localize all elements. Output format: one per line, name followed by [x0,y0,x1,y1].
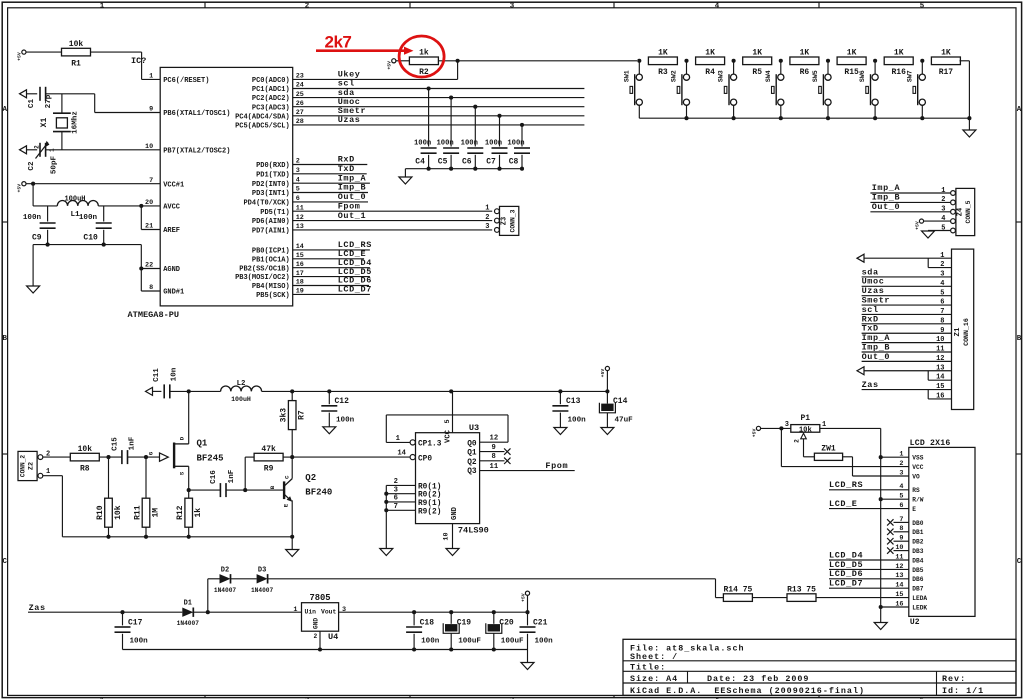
Z1 net label scl [862,305,879,315]
svg-text:3: 3 [510,3,515,11]
label IC? [131,56,146,66]
svg-text:1: 1 [100,3,105,11]
svg-text:SW2: SW2 [671,70,678,82]
capacitor C16 1nF [220,483,226,497]
svg-text:PC1(ADC1): PC1(ADC1) [252,86,290,94]
svg-text:3: 3 [394,486,398,494]
capacitor C10 100n [96,223,112,228]
svg-text:R7: R7 [298,410,307,420]
label C15 [112,437,120,451]
svg-text:100uH: 100uH [231,396,251,403]
Z1 net label sda [862,267,879,277]
net label LCD_E [338,249,367,259]
svg-text:10n: 10n [171,367,179,381]
svg-text:2: 2 [794,439,801,443]
net label Imp_A Z4 [872,183,901,193]
C18 stem [413,612,415,625]
Z1 net label Imp_A [862,333,891,343]
svg-text:3: 3 [785,421,789,429]
net label LCD_D5 at LCD [829,560,863,570]
svg-text:Zas: Zas [29,603,46,613]
U3 pin12 number [490,435,499,443]
wire R2 down to Ukey [457,61,459,80]
junction C8 rail [520,167,524,171]
net label Zas [29,603,46,613]
net label LCD_RS at LCD [829,480,863,490]
svg-text:+5V: +5V [600,369,606,378]
wire L1 to pin20 AVCC [98,205,160,207]
label C9 [32,234,42,243]
label C21 [533,619,548,628]
capacitor C11 10n [164,384,170,398]
net wire LCD_D7 at LCD [829,587,909,589]
capacitor C4 100n [421,148,437,153]
svg-text:C8: C8 [509,158,519,167]
switch SW7 [906,61,925,118]
svg-text:CP0: CP0 [418,455,432,463]
LCD wire pin1 [881,456,909,458]
junction R8-R10 [106,455,110,459]
junction C18 top [412,610,416,614]
U3 reset pin 2 wire [386,484,415,486]
svg-text:C10: C10 [83,234,98,243]
svg-text:SW1: SW1 [623,70,630,82]
R12 lower stem [188,527,190,537]
resistor R15 1K [837,49,866,77]
connector Z1 CONN_16 body [952,249,974,409]
net label LCD_D7 [338,285,372,295]
capacitor C9 100n [40,223,56,228]
svg-text:PC4(ADC4/SDA): PC4(ADC4/SDA) [235,113,290,121]
net wire LCD_RS [293,249,370,251]
label 100uH L2 [231,396,251,403]
junction rail x329 [327,389,331,393]
Z1 pin2 tie [928,258,951,267]
label 100n at C10 [79,214,98,222]
U4 output wire [339,611,528,613]
svg-text:+5V: +5V [520,593,526,602]
junction rail at +5V stem [605,389,609,393]
ground symbol analog [27,286,40,293]
C20 stem [493,612,495,624]
wire C16 to Q2 base [226,489,283,491]
svg-text:3: 3 [941,206,945,214]
resistor R17 1K [931,49,960,77]
potentiometer P1 10k [791,414,820,443]
net label Out_1 [338,211,367,221]
connector Z2 CONN_2 [18,450,50,480]
svg-text:R8: R8 [80,464,90,473]
junction C6 rail [473,167,477,171]
label C12 [335,397,350,406]
display U2 LCD 2X16 body [895,439,975,627]
svg-text:D2: D2 [221,566,229,574]
C6 stem lower [474,155,476,169]
svg-text:1N4007: 1N4007 [251,587,274,594]
svg-text:C16: C16 [210,470,218,484]
junction C6 tap [473,105,477,109]
capacitor C12 100n [321,406,337,411]
U3 pin5 number [444,419,452,423]
U3 reset pin 3 wire [386,493,415,495]
svg-text:S: S [179,471,186,475]
diode D3 1N4007 [251,566,274,594]
svg-text:CONN_3: CONN_3 [510,209,517,232]
wire +5V to Z4 pin4 [924,220,951,222]
svg-text:100n: 100n [485,139,502,147]
junction amp rail x188 [187,535,191,539]
net label LCD_D4 at LCD [829,550,863,560]
transistor Q1 BF245 JFET [148,436,224,475]
label 100n at C5 [436,139,453,147]
Z1 pin number 2 [940,261,944,269]
net label LCD_D7 at LCD [829,579,863,589]
junction C9 rail [46,243,50,247]
Z1 pin number 8 [940,317,944,325]
net wire LCD_D4 [293,267,370,269]
U3 pin8 number [492,453,496,461]
label 100n at C9 [23,214,42,222]
R10 lower stem [108,527,110,537]
svg-text:KiCad E.D.A. EESchema (200902: KiCad E.D.A. EESchema (20090216-final) [630,686,865,696]
svg-text:1K: 1K [752,49,762,58]
net wire LCD_RS at LCD [829,489,909,491]
svg-text:PC0(ADC0): PC0(ADC0) [252,77,290,85]
svg-text:Q2: Q2 [467,459,477,467]
switch SW5 [812,61,831,118]
svg-text:100n: 100n [507,139,524,147]
label C20 [499,619,514,628]
label C4 [415,158,425,167]
ground symbol U3 [446,549,459,556]
svg-text:D1: D1 [184,600,192,608]
resistor R8 10k [70,445,99,473]
rail to ground [32,245,34,286]
Z1 pin number 1 [940,252,944,260]
label C5 [438,158,448,167]
junction rail R17 drop [967,116,971,120]
svg-text:7805: 7805 [309,593,330,603]
svg-text:CONN_5: CONN_5 [965,200,972,223]
C13 lower stem [559,413,561,428]
input arrow C11 [146,387,153,395]
svg-text:Zas: Zas [862,380,879,390]
svg-text:C19: C19 [457,619,472,628]
Z1 net label Uzas [862,286,885,296]
svg-text:GND#1: GND#1 [163,289,184,297]
counter U3 74LS90 body [410,423,489,536]
svg-text:C17: C17 [128,619,143,628]
ground symbol cap bank [399,177,412,184]
net wire LCD_D5 at LCD [829,568,909,570]
svg-text:2: 2 [485,214,489,222]
label R14 75 [723,585,752,594]
svg-text:PD6(AIN0): PD6(AIN0) [252,218,290,226]
svg-text:Q0: Q0 [467,440,477,448]
svg-text:E: E [283,503,290,507]
U3 VCC stub [452,391,454,432]
net wire TxD [293,173,367,175]
svg-text:Z1: Z1 [954,327,962,336]
svg-text:ZW1: ZW1 [821,444,836,453]
svg-text:+5V: +5V [914,221,920,230]
svg-text:DB2: DB2 [912,539,923,546]
C21 stem [527,612,529,625]
capacitor C7 100n [492,148,508,153]
pin digit 2 at C2 [34,145,41,149]
svg-text:3: 3 [899,469,903,477]
svg-text:R0(1): R0(1) [418,483,441,491]
red annotation circle [399,36,444,77]
+5V stem [606,371,608,392]
C10 lower stem [103,230,105,245]
wire C1 to bend [46,93,95,95]
R9 riser [245,457,254,490]
resistor ZW1 [814,453,842,460]
+5V symbol at U4 output [520,591,529,602]
label 1nF at C16 [228,469,236,483]
svg-text:100n: 100n [436,139,453,147]
junction emitter rail [290,535,294,539]
junction keypad node x733 [732,59,736,63]
svg-text:100n: 100n [336,417,355,425]
svg-text:12: 12 [490,435,499,443]
svg-text:C5: C5 [438,158,448,167]
svg-text:VCC: VCC [912,464,923,471]
svg-text:U3: U3 [469,423,479,433]
svg-text:Id: 1/1: Id: 1/1 [942,686,984,696]
svg-text:3: 3 [485,223,489,231]
R7 upper stem [291,391,293,400]
+5V symbol at R1 [17,50,26,61]
label ZW1 [821,444,836,453]
svg-text:PD2(INT0): PD2(INT0) [252,181,290,189]
junction Q1 drain rail [187,389,191,393]
switch SW3 [718,61,737,118]
label 100n at C21 [535,638,554,646]
label 100n at C13 [568,417,587,425]
svg-text:R/W: R/W [912,497,923,504]
label C6 [462,158,472,167]
Z1 pin number 10 [936,336,944,344]
Z1 net wire Imp_A [862,342,952,344]
svg-text:R17: R17 [939,68,954,77]
svg-text:Date: 23 feb 2009: Date: 23 feb 2009 [707,674,809,684]
svg-text:Uzas: Uzas [338,115,361,125]
label C10 [83,234,98,243]
net label scl [338,79,355,89]
crystal X1 16MHz [40,111,80,134]
wire AGND pin22 [141,268,160,270]
diode D1 1N4007 [177,600,200,628]
ground symbol amp [286,550,299,557]
svg-text:PD4(T0/XCK): PD4(T0/XCK) [243,200,289,208]
label R13 75 [787,585,816,594]
svg-text:AREF: AREF [163,227,180,235]
svg-text:R9(1): R9(1) [418,500,441,508]
C6 stem upper [474,107,476,147]
svg-text:Title:: Title: [630,663,666,673]
svg-text:X1: X1 [40,118,49,128]
junction R2-Ukey [456,59,460,63]
input arrow C2 left [20,146,27,154]
C9 lower stem [47,230,49,245]
junction rail x560 [558,389,562,393]
no-connect x LCD pin9 [887,538,893,544]
Z1 pin1 wire [864,257,952,259]
P1 pin3 branch to VCC line [781,428,908,466]
net label LCD_RS [338,240,372,250]
svg-text:R6: R6 [800,68,810,77]
svg-text:2: 2 [394,478,398,486]
title block [623,639,1016,696]
label C1 [28,99,36,109]
svg-text:U2: U2 [910,618,920,627]
C19 stem [450,612,452,624]
U3 CP1 wire [386,441,410,443]
svg-text:DB6: DB6 [912,576,923,583]
svg-text:BF240: BF240 [305,488,332,498]
svg-text:PB6(XTAL1/TOSC1): PB6(XTAL1/TOSC1) [163,110,230,118]
label L2 [237,380,246,388]
svg-text:3k3: 3k3 [280,408,289,423]
amp rail ground stub [291,537,293,550]
wire gnd to Z4 pin5 [928,230,950,232]
regulator U4 7805 [293,593,346,642]
net label TxD [338,164,355,174]
U3 pin3 number [394,486,398,494]
junction gate-R11 [144,455,148,459]
inductor L2 100uH [221,386,262,391]
svg-text:PB0(ICP1): PB0(ICP1) [252,248,290,256]
label 100n at C18 [421,638,440,646]
svg-text:1M: 1M [152,508,161,518]
Z1 pin16 tie [928,390,951,399]
svg-text:1K: 1K [705,49,715,58]
wire Z2 pin2 to R8 [43,456,71,458]
junction C18 bottom [412,647,416,651]
Q2 collector wire [291,457,293,479]
svg-text:2: 2 [34,145,41,149]
svg-text:Out_1: Out_1 [338,211,367,221]
svg-text:+5V: +5V [751,428,757,437]
capacitor C5 100n [443,148,459,153]
C19 lower stem [450,634,452,650]
svg-text:C2: C2 [28,161,36,171]
no-connect x LCD pin7 [887,519,893,525]
supply ground rail [123,649,528,651]
svg-text:1nF: 1nF [129,436,137,450]
junction source-R12-C16 [187,488,191,492]
svg-text:D3: D3 [258,566,266,574]
svg-text:1nF: 1nF [228,469,236,483]
svg-text:1K: 1K [800,49,810,58]
svg-text:Fpom: Fpom [545,461,568,471]
connector Z3 CONN_3 [485,204,519,235]
Z1 pin number 9 [940,327,944,335]
Z1 pin13 arrow [857,367,864,375]
svg-text:L2: L2 [237,380,246,388]
svg-text:P1: P1 [800,414,810,423]
svg-text:Rev:: Rev: [942,674,966,684]
net label Ukey [338,70,361,80]
LCD NC stub pin8 [894,531,909,533]
U3 reset pin 6 wire [386,501,415,503]
wire R13 to LEDA [816,597,909,599]
red annotation arrow line [316,47,414,55]
Z1 net wire Umoc [862,285,952,287]
junction rail x875 [873,116,877,120]
U3 Q1 stub [480,451,505,453]
svg-text:1N4007: 1N4007 [177,620,200,627]
label 50pF [51,155,59,174]
net label Imp_B [338,183,367,193]
svg-text:Z4: Z4 [957,208,965,216]
capacitor C2 50pF variable [40,143,46,157]
svg-text:1: 1 [941,187,945,195]
cap bank ground rail [405,168,522,170]
backlight feed wire [268,579,724,598]
resistor R16 1K [884,49,913,77]
svg-text:Sheet: /: Sheet: / [630,652,678,662]
P1 wiper to ZW1 [804,439,815,457]
switch SW4 [765,61,784,118]
U3 pin9 number [492,444,496,452]
junction trunk VSS [879,455,883,459]
U3 pin14 number [397,450,406,458]
resistor R11 1M [134,498,161,527]
svg-text:1: 1 [396,435,401,443]
svg-text:SW7: SW7 [906,70,913,82]
junction AVCC-AREF [139,204,143,208]
svg-text:10: 10 [443,532,451,540]
ground symbol C12 [323,427,336,434]
junction reset bus y501 [384,500,388,504]
svg-text:16Mhz: 16Mhz [72,111,80,134]
label C16 [210,470,218,484]
R11 lower stem [145,527,147,537]
svg-text:10k: 10k [69,40,84,49]
net wire LCD_D5 [293,276,370,278]
svg-text:1k: 1k [194,508,203,518]
R11 upper stem [145,457,147,498]
wire crystal stem bottom [61,132,63,150]
red annotation 2k7 text [325,33,352,52]
Z1 pin number 11 [936,346,944,354]
label C8 [509,158,519,167]
junction rail x828 [826,116,830,120]
switch SW6 [859,61,878,118]
svg-text:RS: RS [912,487,920,494]
junction rail x686 [684,116,688,120]
resistor R14 75 [723,594,752,602]
label 100n at C12 [336,417,355,425]
svg-text:ATMEGA8-PU: ATMEGA8-PU [128,310,180,320]
U3 pin11 number [490,463,499,471]
net wire Ukey [293,78,458,80]
label C14 [613,397,628,406]
wire D2 to D3 [231,578,257,580]
C13 stem [559,391,561,404]
svg-text:R9(2): R9(2) [418,508,441,516]
C18 lower stem [413,634,415,650]
svg-text:SW6: SW6 [859,70,866,82]
+5V symbol at Z4 [914,219,923,230]
svg-text:R11: R11 [134,505,143,520]
resistor R9 47k [254,445,283,473]
svg-text:CONN_16: CONN_16 [963,318,970,346]
wire Z2 pin1 down [43,476,63,537]
